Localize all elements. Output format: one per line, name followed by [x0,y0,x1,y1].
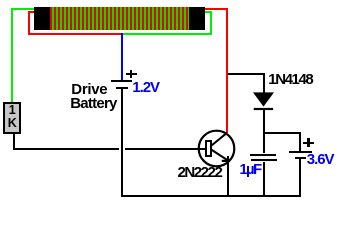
wire green left vertical down to R1 [11,8,13,103]
wire collector branch to diode (black horizontal) [228,73,265,75]
battery B1 bottom plate (negative) [116,87,128,89]
label Battery [70,95,116,112]
transistor Q1 collector diagonal [212,133,228,146]
battery B2 plus sign vertical bar [307,138,309,148]
wire ground rail bottom horizontal [121,195,301,197]
capacitor C1 bottom plate [251,159,277,161]
node center-tap blue wire to battery plus [121,33,123,80]
wire red left vertical of coil bracket [28,11,30,36]
wire diode cathode vertical down to capacitor [263,110,265,153]
label 1.2V [132,79,159,96]
diode D1 triangle [253,92,274,106]
wire red bottom horizontal to center-tap junction [28,33,121,35]
label 2N2222 [178,164,222,181]
wire battery B2 negative stub down to ground rail [299,159,301,197]
wire diode anode vertical [263,75,265,93]
battery B2 bottom plate (negative) [295,157,306,159]
transistor Q1 emitter arrowhead barb [222,160,230,162]
wire base left segment from R1 to crossover [13,148,119,150]
wire R1 bottom stub [13,134,15,150]
wire red right vertical down to Q1 collector [226,8,228,133]
resistor R1 body [3,102,21,134]
label Drive [71,81,107,98]
wire branch to battery B2 horizontal [263,132,301,134]
wire red winding start top-left short segment [28,11,34,13]
battery B1 top plate (positive) [111,80,132,82]
diode D1 cathode bar [254,108,273,110]
inductor L1 toroid coil right black end [189,7,205,31]
label 1uF [239,161,260,178]
battery B1 plus sign horizontal bar [126,73,137,75]
battery B2 plus sign horizontal bar [303,142,314,144]
capacitor C1 top plate [250,154,276,156]
wire emitter vertical to ground rail [227,156,229,195]
resistor R1 value label 1 K [3,104,21,130]
wire battery B2 positive stub [299,132,301,151]
transistor Q1 circle [199,131,235,167]
inductor L1 toroid coil left black end [34,7,50,31]
label 3.6V [307,151,334,168]
inductor L1 bifilar winding stripes [50,7,189,30]
wire green winding start top-left horizontal [11,8,34,10]
wire battery negative stub down to ground rail [121,89,123,197]
wire green bottom horizontal from center-tap to right bracket [123,33,213,35]
wire capacitor bottom vertical to ground rail [263,162,265,196]
battery B1 plus sign vertical bar [130,70,132,78]
battery B2 top plate (positive) [289,151,312,153]
label 1N4148 [268,71,312,88]
wire green winding end top-right short segment [205,11,210,13]
transistor Q1 emitter diagonal [212,150,229,161]
wire red winding end top-right horizontal [205,8,228,10]
transistor Q1 base bar (hollow rectangle) [206,141,211,156]
wire base right segment from crossover to Q1 base [125,148,207,150]
wire green right vertical of coil bracket [210,11,212,36]
